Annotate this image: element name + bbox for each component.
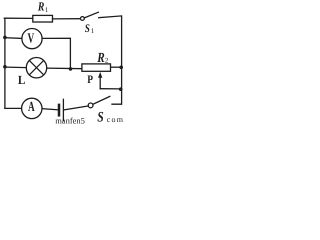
wire voltmeter to node [42, 38, 70, 68]
wire lamp to node to R2 [47, 67, 82, 70]
svg-text:1: 1 [45, 6, 49, 14]
battery long plate [62, 99, 64, 120]
svg-text:V: V [28, 32, 35, 47]
junction dot right rail upper [119, 66, 123, 70]
wire bottom left [5, 107, 22, 109]
switch S2 blade [93, 96, 110, 104]
wire left rail [4, 18, 6, 108]
ammeter A [22, 98, 42, 118]
wire slider to rail [100, 88, 121, 90]
switch S1 pivot [81, 17, 85, 21]
battery short plate [58, 105, 61, 115]
slider P arrow [99, 77, 101, 89]
lamp L [26, 57, 46, 77]
junction dot lamp tap [3, 65, 7, 69]
junction dot voltmeter tap [3, 36, 7, 40]
wire top left [4, 17, 33, 19]
switch S2 pivot [88, 103, 93, 108]
svg-text:R: R [37, 0, 44, 14]
wire R1 to S1 [53, 18, 81, 20]
svg-text:A: A [28, 100, 35, 115]
wire battery to S2 [64, 106, 88, 110]
svg-text:2: 2 [105, 57, 109, 65]
wire R2 right terminal [111, 66, 121, 68]
svg-text:manfen5: manfen5 [55, 116, 85, 125]
junction dot right rail lower [119, 87, 123, 91]
wire rail to voltmeter [7, 37, 22, 40]
switch S1 blade [84, 12, 98, 18]
svg-text:1: 1 [91, 27, 95, 35]
resistor R1 [33, 15, 53, 22]
svg-text:L: L [18, 73, 26, 87]
junction dot lamp node [69, 67, 73, 71]
svg-text:S: S [85, 23, 90, 35]
wire rail to lamp [7, 66, 27, 69]
rheostat R2 [82, 64, 111, 71]
svg-text:R: R [96, 51, 104, 66]
svg-text:P: P [87, 74, 93, 86]
svg-text:com: com [107, 115, 124, 124]
svg-text:S: S [97, 109, 103, 125]
wire ammeter to battery [42, 109, 58, 110]
wire top right and right rail [99, 16, 122, 104]
voltmeter V [22, 28, 42, 48]
